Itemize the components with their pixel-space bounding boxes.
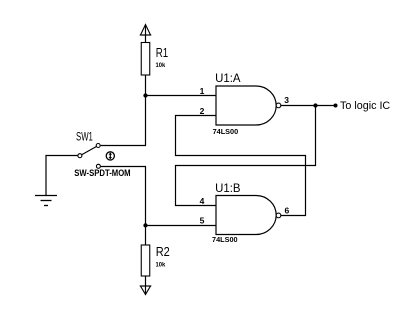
wire node A to U1:A pin 1 [146, 95, 217, 97]
svg-text:4: 4 [200, 196, 205, 206]
svg-text:3: 3 [284, 95, 289, 105]
wire node A down to switch throw 1 [101, 96, 146, 146]
nand gate U1:A [216, 86, 281, 125]
svg-text:U1:B: U1:B [215, 183, 241, 195]
svg-text:10k: 10k [156, 262, 166, 269]
wire node C to R2 [145, 226, 147, 246]
wire node C to U1:B pin 5 [146, 225, 217, 227]
node A junction [143, 93, 147, 97]
svg-text:74LS00: 74LS00 [212, 235, 238, 244]
svg-text:5: 5 [200, 215, 205, 225]
terminal dot To logic IC [334, 104, 338, 108]
wire node B to U1:B pin 4 (feedback) [176, 106, 316, 206]
svg-text:1: 1 [200, 86, 205, 96]
wire R1 to node A [145, 75, 147, 96]
wire U1:B output to U1:A pin 2 (feedback) [176, 116, 306, 216]
momentary actuator symbol [106, 152, 114, 160]
nand gate U1:B [216, 196, 281, 235]
power symbol GND down arrow [140, 276, 151, 295]
power symbol VCC up arrow [140, 25, 151, 43]
resistor R2 [141, 245, 150, 276]
svg-text:74LS00: 74LS00 [213, 127, 239, 136]
svg-text:10k: 10k [156, 62, 166, 69]
svg-text:R2: R2 [156, 245, 170, 259]
svg-text:To logic IC: To logic IC [340, 100, 390, 112]
node B junction [313, 103, 317, 107]
resistor R1 [141, 43, 150, 76]
svg-text:2: 2 [200, 106, 205, 116]
node C junction [143, 223, 147, 227]
svg-text:U1:A: U1:A [215, 73, 241, 85]
svg-text:SW1: SW1 [76, 130, 93, 144]
switch SW1 [78, 144, 101, 169]
wire switch throw 2 to node C [101, 167, 146, 226]
wire switch common to ground [46, 156, 78, 196]
svg-text:R1: R1 [156, 46, 168, 60]
svg-text:6: 6 [285, 205, 290, 215]
svg-text:SW-SPDT-MOM: SW-SPDT-MOM [74, 168, 130, 178]
ground [35, 196, 57, 206]
wire U1:A output to terminal [281, 105, 336, 107]
